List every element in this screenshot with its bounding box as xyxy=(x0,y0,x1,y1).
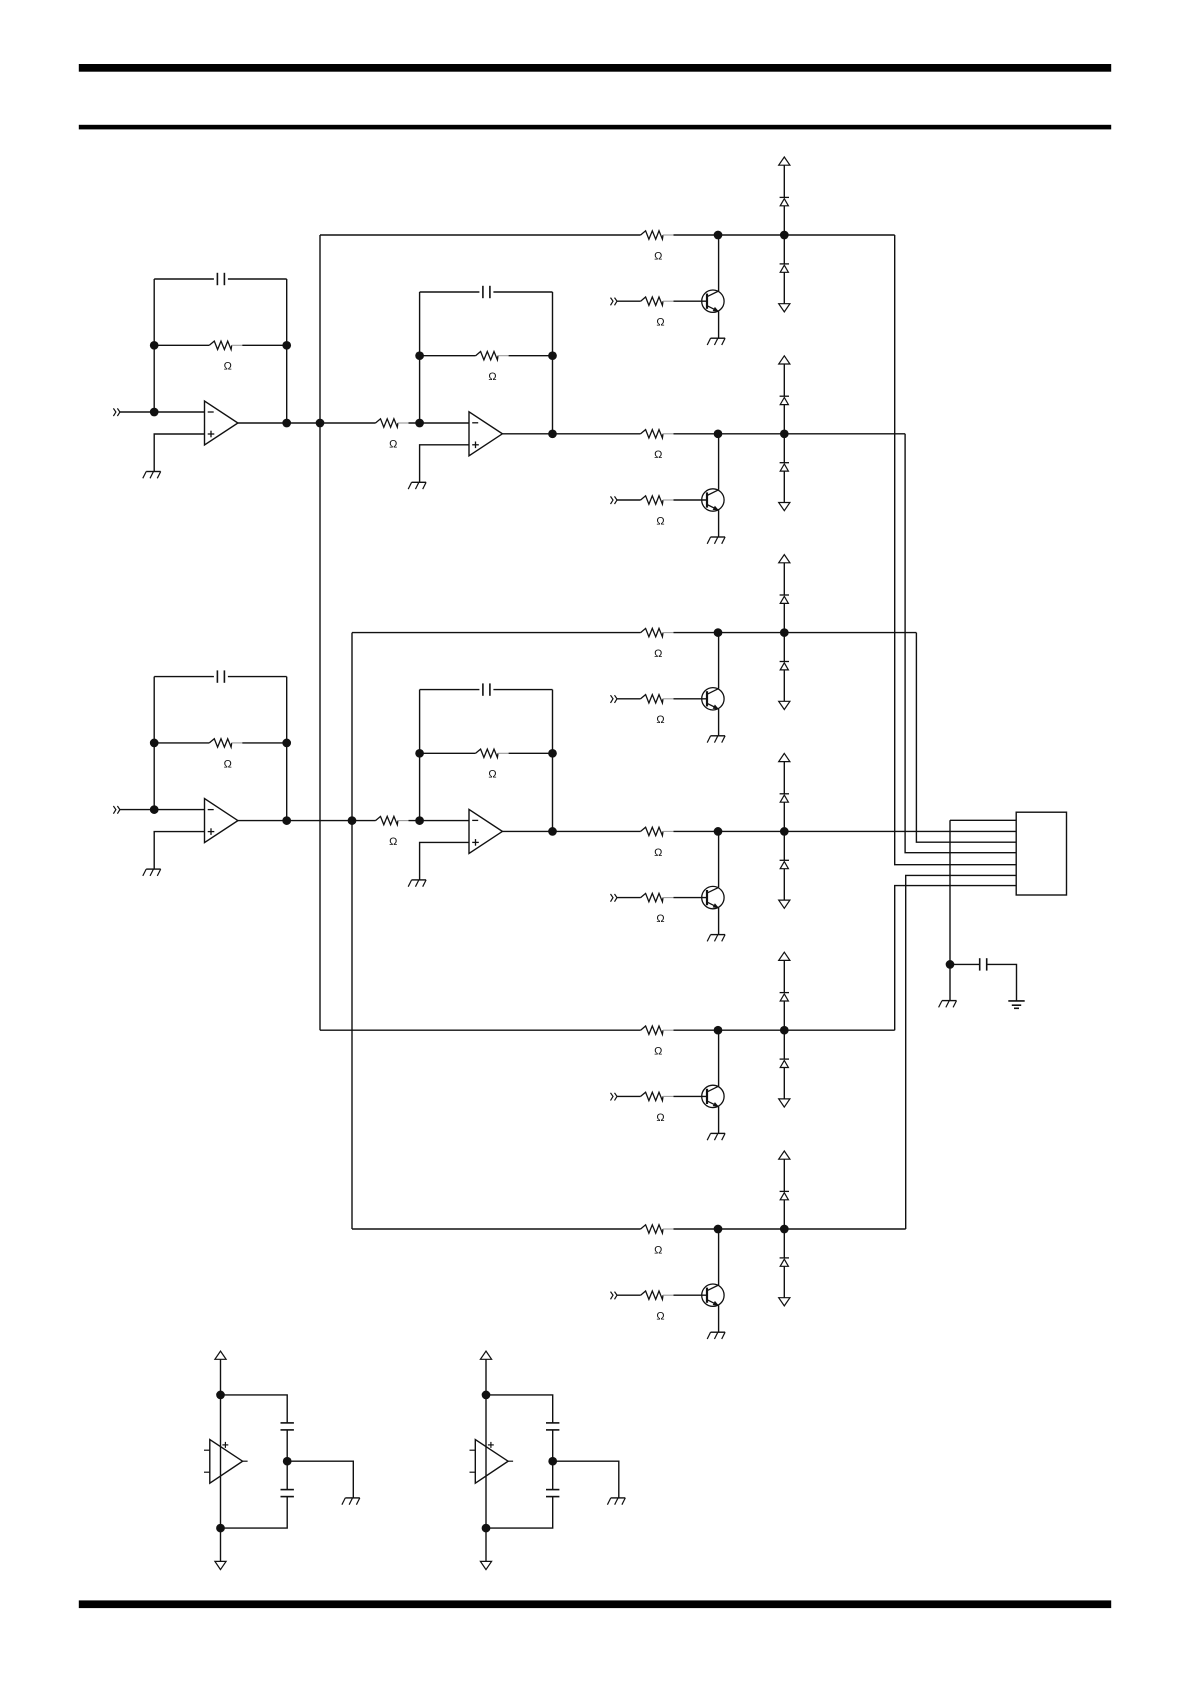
ground GND5 xyxy=(707,338,725,345)
wire Q4 collector xyxy=(718,831,720,887)
svg-text:Ω: Ω xyxy=(389,836,397,848)
wire V+ to top node U5 xyxy=(220,1359,222,1395)
input connector J2 xyxy=(113,806,120,814)
resistor R15 (rail) xyxy=(641,1026,674,1034)
power arrow up row Q4 xyxy=(779,753,790,761)
wire rail to diode D12 xyxy=(783,1229,785,1258)
junction dot U2 output xyxy=(548,429,557,438)
wire U4 output xyxy=(502,830,552,832)
ground GND1 xyxy=(143,472,161,479)
diode D9 xyxy=(780,993,789,1001)
wire U3 output xyxy=(238,820,376,822)
op-amp U6 (power pins) xyxy=(470,1440,514,1484)
wire top node to C6 xyxy=(221,1395,288,1423)
wire arrow to diode D3 xyxy=(783,364,785,396)
wire rail to diode D2 xyxy=(783,235,785,264)
junction dot U4 inverting input xyxy=(415,816,424,825)
power arrow down row Q5 xyxy=(779,1099,790,1107)
op-amp U5 (power pins) xyxy=(204,1440,248,1484)
wire arrow to diode D1 xyxy=(783,165,785,197)
wire J4 to base resistor xyxy=(617,499,641,501)
junction dot bypass node xyxy=(946,960,955,969)
wire rail to diode D4 xyxy=(783,434,785,463)
wire D5 to rail xyxy=(783,603,785,632)
wire Q4 emitter xyxy=(718,908,720,935)
svg-text:Ω: Ω xyxy=(654,648,662,660)
svg-text:Ω: Ω xyxy=(654,1244,662,1256)
op-amp U4 xyxy=(469,809,502,853)
wire D7 to rail xyxy=(783,802,785,831)
wire J2 to U inverting input xyxy=(120,809,205,811)
wire Q1 collector xyxy=(718,235,720,291)
ground GND14 xyxy=(607,1498,625,1505)
resistor R3 xyxy=(476,352,509,360)
wire Q6 emitter xyxy=(718,1305,720,1332)
wire feedback left vertical U3 xyxy=(153,677,155,810)
wire D9 to rail xyxy=(783,1001,785,1030)
wire rail left segment row Q3 xyxy=(352,632,641,634)
junction dot U2 inverting input xyxy=(415,419,424,428)
wire feedback right vertical U2 xyxy=(552,292,554,434)
svg-text:Ω: Ω xyxy=(224,361,232,373)
wire bottom node to V- U6 xyxy=(485,1528,487,1561)
resistor R12 (base) xyxy=(641,695,674,703)
wire capacitor row left C1 xyxy=(154,278,214,280)
svg-text:Ω: Ω xyxy=(656,515,664,527)
wire R5 to U4 input xyxy=(409,820,470,822)
junction dot bottom node U6 xyxy=(482,1524,491,1533)
svg-text:Ω: Ω xyxy=(654,1046,662,1058)
wire arrow to diode D7 xyxy=(783,762,785,794)
junction dot bus B / U3 output xyxy=(348,816,357,825)
power arrow down row Q4 xyxy=(779,900,790,908)
wire J3 to base resistor xyxy=(617,300,641,302)
ground GND9 xyxy=(707,1133,725,1140)
junction dot U4 fb-res right xyxy=(548,749,557,758)
input connector J8 xyxy=(611,1292,618,1300)
wire row6 rail to pin6 xyxy=(906,875,1017,1229)
resistor R2 xyxy=(376,419,409,427)
transistor Q3 xyxy=(702,688,724,710)
junction dot collector node Q2 xyxy=(714,429,723,438)
diode D1 xyxy=(780,197,789,205)
wire resistor row right R3 xyxy=(509,355,553,357)
wire arrow to diode D9 xyxy=(783,960,785,992)
power arrow up row Q2 xyxy=(779,356,790,364)
diode D8 xyxy=(780,860,789,868)
svg-text:Ω: Ω xyxy=(488,769,496,781)
power arrow down row Q3 xyxy=(779,701,790,709)
power arrow up row Q6 xyxy=(779,1151,790,1159)
svg-text:Ω: Ω xyxy=(656,1311,664,1323)
wire U3 non-inverting to ground xyxy=(154,832,204,870)
wire C5 to earth xyxy=(987,964,1017,1001)
wire resistor row left R4 xyxy=(154,742,209,744)
transistor Q4 xyxy=(702,886,724,908)
wire feedback left vertical U4 xyxy=(419,690,421,821)
junction dot mid node U6 xyxy=(548,1457,557,1466)
junction dot diode column node row Q3 xyxy=(780,628,789,637)
ground GND13 xyxy=(342,1498,360,1505)
wire feedback right vertical U4 xyxy=(552,690,554,832)
input connector J7 xyxy=(611,1093,618,1101)
wire mid node to ground xyxy=(287,1461,353,1498)
wire row2 rail to pin4 xyxy=(905,434,1016,853)
power arrow down row Q1 xyxy=(779,304,790,312)
svg-text:Ω: Ω xyxy=(654,847,662,859)
wire capacitor row right C3 xyxy=(228,676,287,678)
junction dot diode column node row Q1 xyxy=(780,231,789,240)
diode D6 xyxy=(780,662,789,670)
junction dot collector node Q4 xyxy=(714,827,723,836)
wire Q5 collector xyxy=(718,1030,720,1086)
wire rail to diode D8 xyxy=(783,831,785,860)
resistor R18 (base) xyxy=(641,1291,674,1299)
input connector J4 xyxy=(611,496,618,504)
transistor Q6 xyxy=(702,1284,724,1306)
wire rail mid segment row Q5 xyxy=(674,1029,895,1031)
junction dot U2 fb-res right xyxy=(548,351,557,360)
wire rail to diode D10 xyxy=(783,1030,785,1059)
capacitor C7 xyxy=(281,1490,294,1497)
wire power vertical U5 xyxy=(220,1395,222,1528)
wire capacitor row right C2 xyxy=(493,291,552,293)
resistor R10 (base) xyxy=(641,496,674,504)
resistor R11 (rail) xyxy=(641,628,674,636)
junction dot bus A / U1 output xyxy=(316,419,325,428)
wire resistor row left R6 xyxy=(420,752,476,754)
wire C6 to mid node xyxy=(286,1430,288,1461)
junction dot collector node Q6 xyxy=(714,1225,723,1234)
wire rail left segment row Q5 xyxy=(320,1029,641,1031)
wire D2 to arrow xyxy=(783,272,785,303)
bottom rule xyxy=(79,1600,1111,1608)
wire base resistor to Q3 base xyxy=(674,698,708,700)
wire row5 rail to pin7 xyxy=(895,886,1017,1031)
wire rail mid segment row Q4 xyxy=(674,830,1017,832)
wire feedback left vertical U1 xyxy=(153,279,155,412)
wire Q6 collector xyxy=(718,1229,720,1285)
svg-text:Ω: Ω xyxy=(656,317,664,329)
wire resistor row left R1 xyxy=(154,344,209,346)
wire rail mid segment row Q2 xyxy=(674,433,906,435)
ground GND4 xyxy=(408,880,426,887)
wire Q2 collector xyxy=(718,434,720,490)
connector U7 body xyxy=(1016,812,1066,895)
junction dot mid node U5 xyxy=(283,1457,292,1466)
ground GND11 xyxy=(939,1001,957,1008)
wire rail mid segment row Q6 xyxy=(674,1228,906,1230)
wire U1 output xyxy=(238,422,376,424)
capacitor C3 xyxy=(217,670,224,682)
junction dot U4 output xyxy=(548,827,557,836)
wire bus A vertical (U1 output to row1/row5 rails) xyxy=(319,235,321,1030)
capacitor C5 xyxy=(980,958,987,970)
svg-text:Ω: Ω xyxy=(389,438,397,450)
wire J7 to base resistor xyxy=(617,1095,641,1097)
wire arrow to diode D5 xyxy=(783,563,785,595)
input connector J1 xyxy=(113,408,120,416)
junction dot collector node Q3 xyxy=(714,628,723,637)
wire top node to C8 xyxy=(486,1395,553,1423)
diode D2 xyxy=(780,264,789,272)
junction dot collector node Q1 xyxy=(714,231,723,240)
wire Q2 emitter xyxy=(718,510,720,537)
wire base resistor to Q4 base xyxy=(674,897,708,899)
junction dot top node U5 xyxy=(216,1391,225,1400)
ground GND2 xyxy=(408,482,426,489)
capacitor C2 xyxy=(483,286,490,298)
wire base resistor to Q6 base xyxy=(674,1294,708,1296)
wire feedback left vertical U2 xyxy=(419,292,421,423)
wire capacitor row left C3 xyxy=(154,676,214,678)
wire capacitor row right C1 xyxy=(228,278,287,280)
resistor R1 xyxy=(209,341,242,349)
wire rail mid segment row Q1 xyxy=(674,234,895,236)
diode D10 xyxy=(780,1059,789,1067)
junction dot diode column node row Q2 xyxy=(780,429,789,438)
power arrow V+ VP1 xyxy=(215,1351,226,1359)
wire resistor row left R3 xyxy=(420,355,476,357)
power arrow up row Q3 xyxy=(779,555,790,563)
junction dot top node U6 xyxy=(482,1391,491,1400)
power arrow down row Q2 xyxy=(779,503,790,511)
resistor R9 (rail) xyxy=(641,430,674,438)
wire base resistor to Q2 base xyxy=(674,499,708,501)
capacitor C8 xyxy=(546,1423,559,1430)
diode D7 xyxy=(780,794,789,802)
wire D11 to rail xyxy=(783,1200,785,1229)
wire J1 to U inverting input xyxy=(120,411,205,413)
wire capacitor row left C4 xyxy=(420,689,480,691)
capacitor C4 xyxy=(483,683,490,695)
wire J8 to base resistor xyxy=(617,1294,641,1296)
wire rail left segment row Q6 xyxy=(352,1228,641,1230)
svg-text:Ω: Ω xyxy=(488,371,496,383)
wire bypass node to C5 xyxy=(950,963,979,965)
wire resistor row right R1 xyxy=(242,344,286,346)
power arrow V- VM2 xyxy=(480,1561,491,1569)
wire Q3 collector xyxy=(718,633,720,689)
ground GND6 xyxy=(707,537,725,544)
wire bottom node to V- U5 xyxy=(220,1528,222,1561)
resistor R14 (base) xyxy=(641,893,674,901)
wire V+ to top node U6 xyxy=(485,1359,487,1395)
junction dot U3 fb-res left xyxy=(150,739,159,748)
svg-text:Ω: Ω xyxy=(654,449,662,461)
wire rail left segment row Q2 xyxy=(553,433,641,435)
power arrow down row Q6 xyxy=(779,1298,790,1306)
resistor R13 (rail) xyxy=(641,827,674,835)
capacitor C9 xyxy=(546,1490,559,1497)
wire D4 to arrow xyxy=(783,471,785,502)
svg-text:Ω: Ω xyxy=(224,758,232,770)
wire power vertical U6 xyxy=(485,1395,487,1528)
resistor R8 (base) xyxy=(641,297,674,305)
wire J5 to base resistor xyxy=(617,698,641,700)
wire rail left segment row Q1 xyxy=(320,234,641,236)
input connector J5 xyxy=(611,695,618,703)
transistor Q2 xyxy=(702,489,724,511)
junction dot U3 inverting input xyxy=(150,805,159,814)
wire D1 to rail xyxy=(783,206,785,235)
junction dot U1 fb-res right xyxy=(282,341,291,350)
top rule thin xyxy=(79,125,1111,130)
wire arrow to diode D11 xyxy=(783,1159,785,1191)
resistor R4 xyxy=(209,739,242,747)
diode D5 xyxy=(780,595,789,603)
junction dot U3 fb-res right xyxy=(282,739,291,748)
wire U2 output xyxy=(502,433,552,435)
wire capacitor row right C4 xyxy=(493,689,552,691)
junction dot diode column node row Q5 xyxy=(780,1026,789,1035)
wire resistor row right R6 xyxy=(509,752,553,754)
diode D11 xyxy=(780,1191,789,1199)
junction dot U1 output xyxy=(282,419,291,428)
wire mid node to C7 xyxy=(286,1461,288,1489)
power arrow up row Q1 xyxy=(779,157,790,165)
wire feedback right vertical U3 xyxy=(286,677,288,821)
junction dot U3 output xyxy=(282,816,291,825)
ground GND8 xyxy=(707,935,725,942)
svg-text:Ω: Ω xyxy=(654,250,662,262)
wire D10 to arrow xyxy=(783,1068,785,1099)
svg-text:Ω: Ω xyxy=(656,913,664,925)
op-amp U2 xyxy=(469,412,502,456)
wire C7 to bottom node xyxy=(221,1497,288,1529)
wire rail to diode D6 xyxy=(783,633,785,662)
wire mid node to ground xyxy=(553,1461,619,1498)
diode D12 xyxy=(780,1258,789,1266)
transistor Q1 xyxy=(702,290,724,312)
wire feedback right vertical U1 xyxy=(286,279,288,423)
op-amp U3 xyxy=(205,799,238,843)
wire resistor row right R4 xyxy=(242,742,286,744)
power arrow up row Q5 xyxy=(779,952,790,960)
resistor R7 (rail) xyxy=(641,231,674,239)
junction dot diode column node row Q4 xyxy=(780,827,789,836)
junction dot U2 fb-res left xyxy=(415,351,424,360)
junction dot collector node Q5 xyxy=(714,1026,723,1035)
wire C8 to mid node xyxy=(552,1430,554,1461)
wire U2 non-inverting to ground xyxy=(420,445,469,483)
wire U4 non-inverting to ground xyxy=(420,842,469,880)
wire D12 to arrow xyxy=(783,1266,785,1297)
resistor R6 xyxy=(476,749,509,757)
wire D8 to arrow xyxy=(783,869,785,900)
ground GND10 xyxy=(707,1332,725,1339)
wire row1 rail to pin5 xyxy=(895,235,1017,865)
wire U1 non-inverting to ground xyxy=(154,434,204,472)
capacitor C6 xyxy=(281,1423,294,1430)
transistor Q5 xyxy=(702,1085,724,1107)
wire Q1 emitter xyxy=(718,311,720,338)
capacitor C1 xyxy=(217,273,224,285)
wire D3 to rail xyxy=(783,405,785,434)
top rule thick xyxy=(79,64,1111,72)
wire pin1 vertical to bypass node xyxy=(949,820,951,964)
wire C9 to bottom node xyxy=(486,1497,553,1529)
wire base resistor to Q5 base xyxy=(674,1095,708,1097)
diode D3 xyxy=(780,396,789,404)
wire pin1 horizontal xyxy=(950,819,1016,821)
junction dot diode column node row Q6 xyxy=(780,1225,789,1234)
svg-text:Ω: Ω xyxy=(656,714,664,726)
input connector J6 xyxy=(611,894,618,902)
resistor R17 (rail) xyxy=(641,1225,674,1233)
power arrow V- VM1 xyxy=(215,1561,226,1569)
op-amp U1 xyxy=(205,401,238,445)
wire J6 to base resistor xyxy=(617,897,641,899)
junction dot U1 fb-res left xyxy=(150,341,159,350)
junction dot U1 inverting input xyxy=(150,408,159,417)
ground earth GND12 xyxy=(1008,1001,1024,1008)
wire R2 to U2 input xyxy=(409,422,470,424)
wire row3 rail to pin3 xyxy=(916,633,1016,843)
wire rail left segment row Q4 xyxy=(553,830,641,832)
resistor R5 xyxy=(376,816,409,824)
wire rail mid segment row Q3 xyxy=(674,632,917,634)
wire bypass node to ground xyxy=(949,964,951,1000)
wire Q3 emitter xyxy=(718,709,720,736)
wire D6 to arrow xyxy=(783,670,785,701)
wire Q5 emitter xyxy=(718,1107,720,1134)
junction dot U4 fb-res left xyxy=(415,749,424,758)
diode D4 xyxy=(780,463,789,471)
wire mid node to C9 xyxy=(552,1461,554,1489)
wire base resistor to Q1 base xyxy=(674,300,708,302)
power arrow V+ VP2 xyxy=(480,1351,491,1359)
wire bus B vertical (U3 output to row3/row6 rails) xyxy=(351,633,353,1229)
ground GND7 xyxy=(707,736,725,743)
input connector J3 xyxy=(611,298,618,306)
svg-text:Ω: Ω xyxy=(656,1112,664,1124)
ground GND3 xyxy=(143,869,161,876)
junction dot bottom node U5 xyxy=(216,1524,225,1533)
resistor R16 (base) xyxy=(641,1092,674,1100)
wire capacitor row left C2 xyxy=(420,291,480,293)
